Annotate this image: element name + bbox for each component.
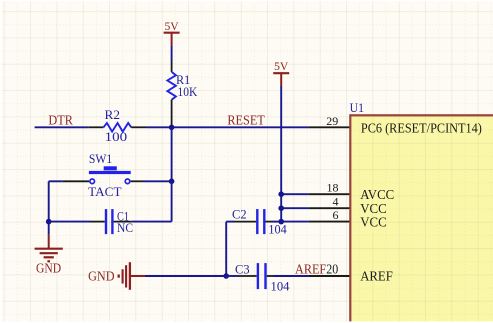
svg-text:C3: C3 bbox=[235, 262, 250, 277]
resistor R1 (10K pullup) bbox=[167, 61, 176, 126]
wire: C2 to VCC junction bbox=[272, 221, 282, 223]
wire: node to C3 left lead bbox=[226, 275, 238, 277]
junction: SW1 right contact branch bbox=[169, 179, 175, 185]
ground: earth GND symbol bbox=[35, 235, 63, 276]
svg-text:104: 104 bbox=[271, 278, 290, 293]
wire: C2 down to C3/GND row bbox=[225, 222, 227, 276]
pin 29 of U1 (PC6/RESET) bbox=[309, 126, 350, 128]
pin 6 of U1 (VCC) bbox=[309, 221, 350, 223]
svg-text:NC: NC bbox=[117, 220, 133, 235]
svg-text:PC6 (RESET/PCINT14): PC6 (RESET/PCINT14) bbox=[361, 122, 482, 137]
junction: VCC pin 4 branch bbox=[278, 205, 284, 211]
svg-text:C2: C2 bbox=[232, 206, 247, 221]
svg-text:18: 18 bbox=[327, 181, 339, 195]
svg-text:5V: 5V bbox=[165, 19, 180, 33]
IC U1 body (ATmega, partial view) bbox=[350, 115, 493, 323]
svg-text:GND: GND bbox=[88, 269, 115, 284]
svg-text:20: 20 bbox=[326, 262, 338, 277]
svg-text:5V: 5V bbox=[274, 59, 289, 73]
wire: C2 left corner bbox=[226, 221, 234, 223]
svg-text:10K: 10K bbox=[178, 84, 198, 99]
wire: RESET net (R2 to pin 29) bbox=[147, 126, 309, 128]
capacitor C1 (NC) bbox=[90, 209, 132, 234]
svg-text:GND: GND bbox=[36, 261, 61, 276]
pin 18 of U1 (AVCC) bbox=[309, 193, 350, 195]
svg-text:6: 6 bbox=[333, 208, 339, 222]
svg-text:104: 104 bbox=[268, 221, 287, 236]
wire: branch to pin 6 bbox=[281, 221, 308, 223]
junction: AVCC branch bbox=[278, 191, 284, 197]
junction: VCC pin 6 / C2 branch bbox=[278, 219, 284, 225]
svg-text:VCC: VCC bbox=[360, 215, 387, 230]
wire: branch to pin 4 bbox=[281, 207, 308, 209]
resistor R2 (100, series) bbox=[89, 123, 147, 132]
svg-text:AREF: AREF bbox=[295, 262, 327, 277]
wire: SW1 pin 2 to vertical branch bbox=[144, 180, 172, 182]
wire: 5V port to R1 pin 1 bbox=[171, 46, 173, 61]
svg-text:29: 29 bbox=[326, 114, 338, 128]
wire: GND to C3 node bbox=[145, 275, 226, 277]
ground: GND power port (bar style) bbox=[88, 262, 145, 290]
wire: branch to pin 18 bbox=[281, 193, 308, 195]
wire: left corner to SW1 pin 1 bbox=[49, 180, 63, 182]
wire: DTR net to R2 bbox=[35, 126, 89, 128]
svg-text:RESET: RESET bbox=[227, 113, 265, 128]
wire: 5V down to VCC pins bbox=[280, 86, 282, 222]
wire: AREF net (C3 to pin 20) bbox=[274, 275, 309, 277]
power port 5V (top, feeds R1) bbox=[164, 19, 180, 46]
switch SW1 (tact button) bbox=[62, 166, 143, 183]
svg-text:R2: R2 bbox=[105, 107, 121, 122]
wire: SW1 branch down to C1 bbox=[171, 181, 173, 221]
junction: C1 left lead bbox=[46, 219, 52, 225]
wire: RESET junction down to SW1 bbox=[171, 127, 173, 181]
pin 20 of U1 (AREF) bbox=[309, 275, 350, 277]
svg-text:DTR: DTR bbox=[48, 113, 73, 128]
svg-text:4: 4 bbox=[333, 194, 339, 208]
svg-text:AREF: AREF bbox=[360, 270, 393, 285]
svg-text:AVCC: AVCC bbox=[360, 188, 394, 203]
pin 4 of U1 (VCC) bbox=[309, 207, 350, 209]
junction: R1 / R2 / RESET / SW branch bbox=[169, 125, 175, 131]
wire: SW1 row down to ground bbox=[48, 181, 50, 235]
svg-text:SW1: SW1 bbox=[89, 151, 112, 166]
svg-text:U1: U1 bbox=[350, 100, 364, 115]
svg-text:TACT: TACT bbox=[88, 184, 121, 199]
capacitor C2 (104) bbox=[234, 209, 272, 234]
svg-text:100: 100 bbox=[105, 129, 128, 144]
junction: GND / C3 node bbox=[223, 273, 229, 279]
power port 5V (feeds AVCC/VCC) bbox=[273, 59, 289, 86]
capacitor C3 (104) bbox=[238, 263, 274, 289]
wire: junction to C1 left lead bbox=[49, 221, 90, 223]
wire: corner to C1 right lead bbox=[132, 221, 172, 223]
